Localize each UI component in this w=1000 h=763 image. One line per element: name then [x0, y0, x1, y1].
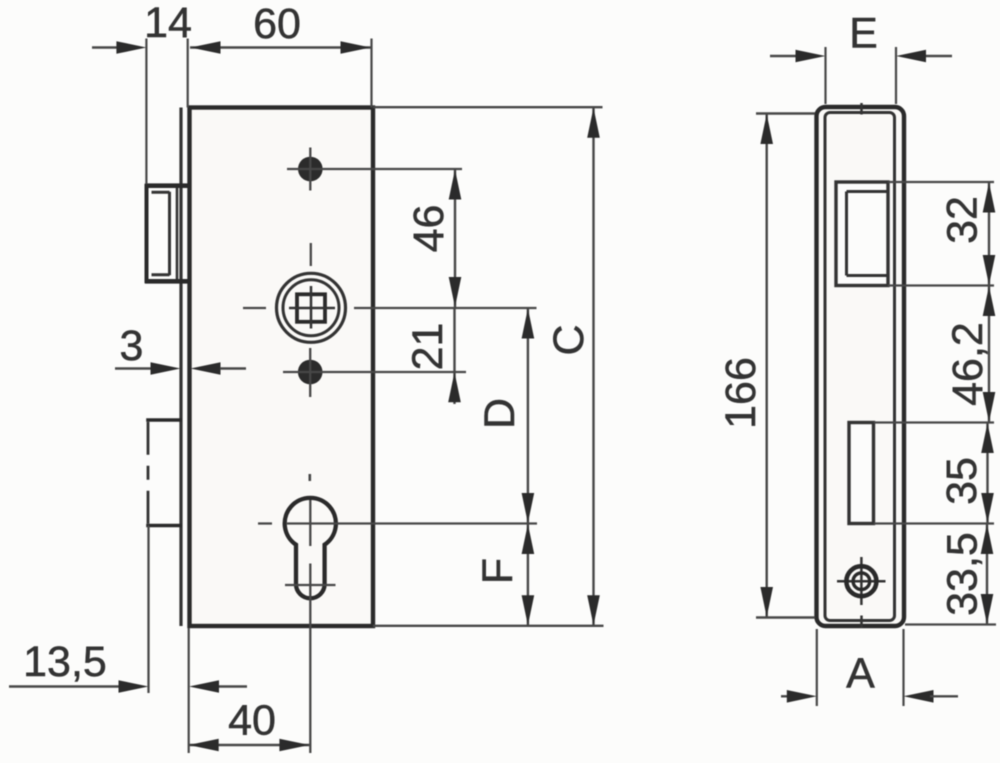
keyhole vertical centerline lower	[309, 564, 311, 604]
spindle centerline dash left	[243, 307, 266, 309]
dim 14 arrow	[116, 41, 146, 54]
svg-text:14: 14	[144, 0, 192, 47]
dim 166 line	[766, 114, 768, 618]
svg-text:A: A	[846, 650, 875, 698]
dim C top arrow	[587, 108, 600, 138]
dim 35 bottom extension	[874, 522, 994, 524]
dim 60 left arrow	[191, 41, 221, 54]
dim E right arrow	[896, 50, 926, 63]
dim 46,2 top arrow	[983, 286, 996, 316]
svg-text:40: 40	[228, 697, 276, 745]
keyhole horizontal centerline	[287, 522, 537, 524]
dim E extension right	[895, 47, 897, 104]
dim 33,5 line	[986, 524, 988, 625]
dim 3 right arrow	[191, 362, 221, 375]
svg-text:3: 3	[120, 322, 144, 370]
deadbolt head	[146, 420, 182, 526]
lower hole horizontal centerline	[283, 371, 466, 373]
latch guide inner line	[176, 186, 179, 281]
screw hole (side view)	[837, 557, 886, 605]
dim F line	[527, 524, 529, 626]
keyhole centerline extension down	[309, 603, 311, 753]
dim A extension right	[902, 629, 904, 706]
dim 46,2 line	[988, 286, 990, 423]
top hole horizontal centerline	[287, 168, 462, 170]
spindle hub U-follower	[277, 273, 346, 342]
lower hole vertical centerline	[309, 348, 311, 397]
side view outer profile	[817, 107, 905, 626]
dim E right line	[926, 55, 952, 57]
keyhole vertical centerline upper	[309, 500, 311, 546]
dim 13,5 right arrow	[189, 680, 219, 693]
dim 46 line	[454, 169, 456, 308]
dim A right arrow	[904, 690, 934, 703]
svg-text:D: D	[476, 398, 524, 429]
dim 35 bottom arrow	[981, 493, 994, 523]
dim 3 left line	[115, 367, 151, 369]
svg-text:35: 35	[938, 457, 986, 505]
dim 32 top extension	[888, 181, 994, 183]
dim 166 bottom arrow	[760, 587, 773, 617]
case top extension line	[373, 106, 603, 108]
dim 40 left arrow	[189, 739, 219, 752]
dim D top arrow	[522, 309, 535, 339]
dim E left arrow	[796, 50, 826, 63]
faceplate parting tick bottom	[860, 616, 863, 629]
svg-text:46: 46	[405, 205, 453, 253]
case bottom extension line	[373, 625, 604, 627]
dim 13,5 left line	[9, 685, 119, 687]
dim 35 top arrow	[981, 423, 994, 453]
svg-text:E: E	[849, 10, 878, 58]
deadbolt centerline extension	[147, 526, 149, 694]
dim 35 line	[986, 423, 988, 524]
svg-text:13,5: 13,5	[23, 638, 107, 686]
dim 14 tail line	[92, 46, 117, 48]
lock case body (front view)	[190, 108, 374, 627]
dim 166 top arrow	[760, 114, 773, 144]
dim 40 extension line left	[188, 628, 190, 753]
keyhole centerline dash left	[258, 522, 272, 524]
dim 21 bottom arrow	[448, 372, 461, 402]
dim D line	[527, 308, 529, 524]
dim 166 top reference line	[756, 112, 815, 114]
dim 46 top arrow	[449, 170, 462, 200]
latch bolt head	[145, 184, 189, 283]
deadbolt slot (side view)	[849, 423, 874, 524]
dim 60 line	[190, 46, 371, 48]
dim E left line	[770, 55, 796, 57]
spindle centerline dash above	[310, 243, 312, 266]
svg-text:F: F	[474, 558, 522, 584]
keyhole centerline dot	[308, 474, 311, 481]
svg-text:60: 60	[253, 0, 301, 48]
dim 21 line	[453, 308, 455, 405]
dim C bottom arrow	[587, 595, 600, 625]
dim 46,2 bottom arrow	[983, 392, 996, 422]
dim 14 extension line right	[187, 39, 189, 108]
keyhole bottom cap tick	[285, 584, 336, 586]
dim 46,2 bottom extension	[874, 421, 994, 423]
svg-text:166: 166	[717, 357, 765, 429]
dim F top arrow	[522, 524, 535, 554]
dim 60 extension line	[370, 39, 372, 108]
dim A extension left	[816, 629, 818, 706]
dim E extension left	[824, 47, 826, 104]
latch slot (side view)	[836, 182, 888, 286]
dim A left arrow	[787, 690, 817, 703]
svg-text:21: 21	[404, 323, 452, 371]
dim 33,5 top arrow	[981, 524, 994, 554]
dim D bottom arrow	[522, 493, 535, 523]
spindle centerline right	[354, 307, 537, 309]
dim 40 line	[189, 744, 310, 746]
dim 14 extension line left	[145, 39, 147, 185]
dim 166 bottom reference line	[756, 616, 815, 618]
dim 32 line	[988, 182, 990, 286]
svg-text:C: C	[545, 324, 593, 355]
dim F bottom arrow	[522, 595, 535, 625]
dim 33,5 bottom arrow	[981, 594, 994, 624]
dim 32 bottom arrow	[983, 255, 996, 285]
faceplate parting tick top	[860, 103, 863, 115]
keyhole (euro profile cutout)	[285, 498, 336, 598]
dim 3 left arrow	[151, 362, 181, 375]
dim 40 right arrow	[279, 739, 309, 752]
dim 46 bottom arrow	[449, 277, 462, 307]
dim 32 bottom extension	[888, 284, 994, 286]
dim 32 top arrow	[983, 183, 996, 213]
dim 33,5 bottom extension	[905, 623, 996, 625]
svg-text:32: 32	[939, 196, 987, 244]
top hole vertical centerline	[309, 148, 311, 191]
dim 13,5 left arrow	[119, 680, 149, 693]
faceplate edge line	[179, 108, 182, 627]
svg-text:33,5: 33,5	[939, 532, 987, 616]
top mounting hole	[298, 157, 323, 182]
dim 60 right arrow	[341, 41, 371, 54]
dim A right line	[930, 695, 958, 697]
dim 3 right line	[220, 367, 246, 369]
lower mounting hole	[298, 360, 323, 385]
dim 13,5 right line	[219, 685, 247, 687]
dim A left line	[781, 695, 790, 697]
dim C line	[592, 107, 594, 626]
side view inner wall lines	[825, 113, 895, 621]
